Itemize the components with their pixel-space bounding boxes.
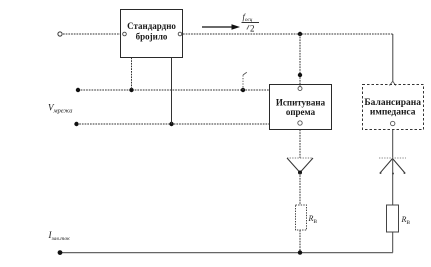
node: V rail junction with probe stub	[241, 88, 245, 92]
wire: resistor RB2 to bottom rail corner	[392, 232, 394, 253]
input terminal (left pulse input)	[58, 32, 62, 36]
EUT box (Испитувана опрема)	[270, 85, 332, 130]
wire: meter leg 2	[171, 58, 173, 125]
wire: lower rail	[77, 123, 270, 125]
node: bottom rail junction with RB1 branch	[298, 250, 302, 254]
wire: EUT bottom terminal to diode D1	[298, 121, 302, 158]
wire: EUT branch vertical (dashed)	[299, 34, 301, 87]
pin circle: meter left pin	[123, 32, 127, 36]
svg-text:RВ: RВ	[308, 214, 318, 225]
svg-text:Iзав.ток: Iзав.ток	[48, 230, 71, 242]
svg-text:опрема: опрема	[286, 107, 316, 117]
probe stub with tick on V rail	[243, 72, 247, 90]
label fosc/2	[242, 12, 260, 34]
svg-text:бројило: бројило	[136, 32, 168, 42]
node: V rail junction with meter leg 1	[129, 88, 133, 92]
standard meter box (Стандардно бројило)	[121, 10, 183, 58]
svg-text:2: 2	[250, 24, 255, 34]
diode D2 (up-pointing)	[379, 158, 406, 175]
resistor RB2	[387, 205, 399, 232]
svg-text:Vмрежа: Vмрежа	[48, 103, 73, 115]
svg-text:RВ: RВ	[401, 215, 411, 226]
node: junction dot on EUT branch	[298, 73, 302, 77]
wire: input terminal to standard meter box	[63, 33, 120, 35]
wire: resistor RB1 to bottom rail	[299, 230, 301, 253]
arrow: fosc/2 signal direction	[202, 24, 240, 29]
svg-text:Стандардно: Стандардно	[127, 21, 176, 31]
node: top rail junction to EUT branch	[298, 32, 302, 36]
wire: voltage rail V (upper)	[78, 89, 269, 91]
wire: diode D2 to resistor RB2	[392, 159, 394, 206]
pin circle: meter right pin	[178, 32, 182, 36]
svg-text:импеданса: импеданса	[370, 107, 416, 117]
balancing impedance box (Балансирана импеданса)	[363, 85, 424, 130]
wire: balancing impedance bottom to diode D2	[391, 121, 395, 158]
svg-text:fосц: fосц	[243, 12, 253, 24]
wire: bottom current rail	[60, 252, 393, 254]
pin circle: EUT top terminal	[298, 87, 302, 91]
wire: diode D1 to resistor RB1	[299, 173, 301, 206]
diode D1 (down-pointing)	[287, 158, 313, 175]
node: bottom rail left end	[58, 250, 63, 255]
wire: right branch vertical down to balancing impedance	[392, 34, 394, 82]
wire: top rail from meter to right branch	[183, 33, 393, 35]
node: lower rail junction with meter leg 2	[169, 122, 173, 126]
resistor RB1	[296, 205, 307, 230]
pin caret: balancing impedance top terminal	[390, 81, 396, 85]
wire: meter leg 1	[131, 58, 133, 91]
node: V rail left end	[76, 88, 80, 92]
node: lower rail left end	[74, 122, 78, 126]
